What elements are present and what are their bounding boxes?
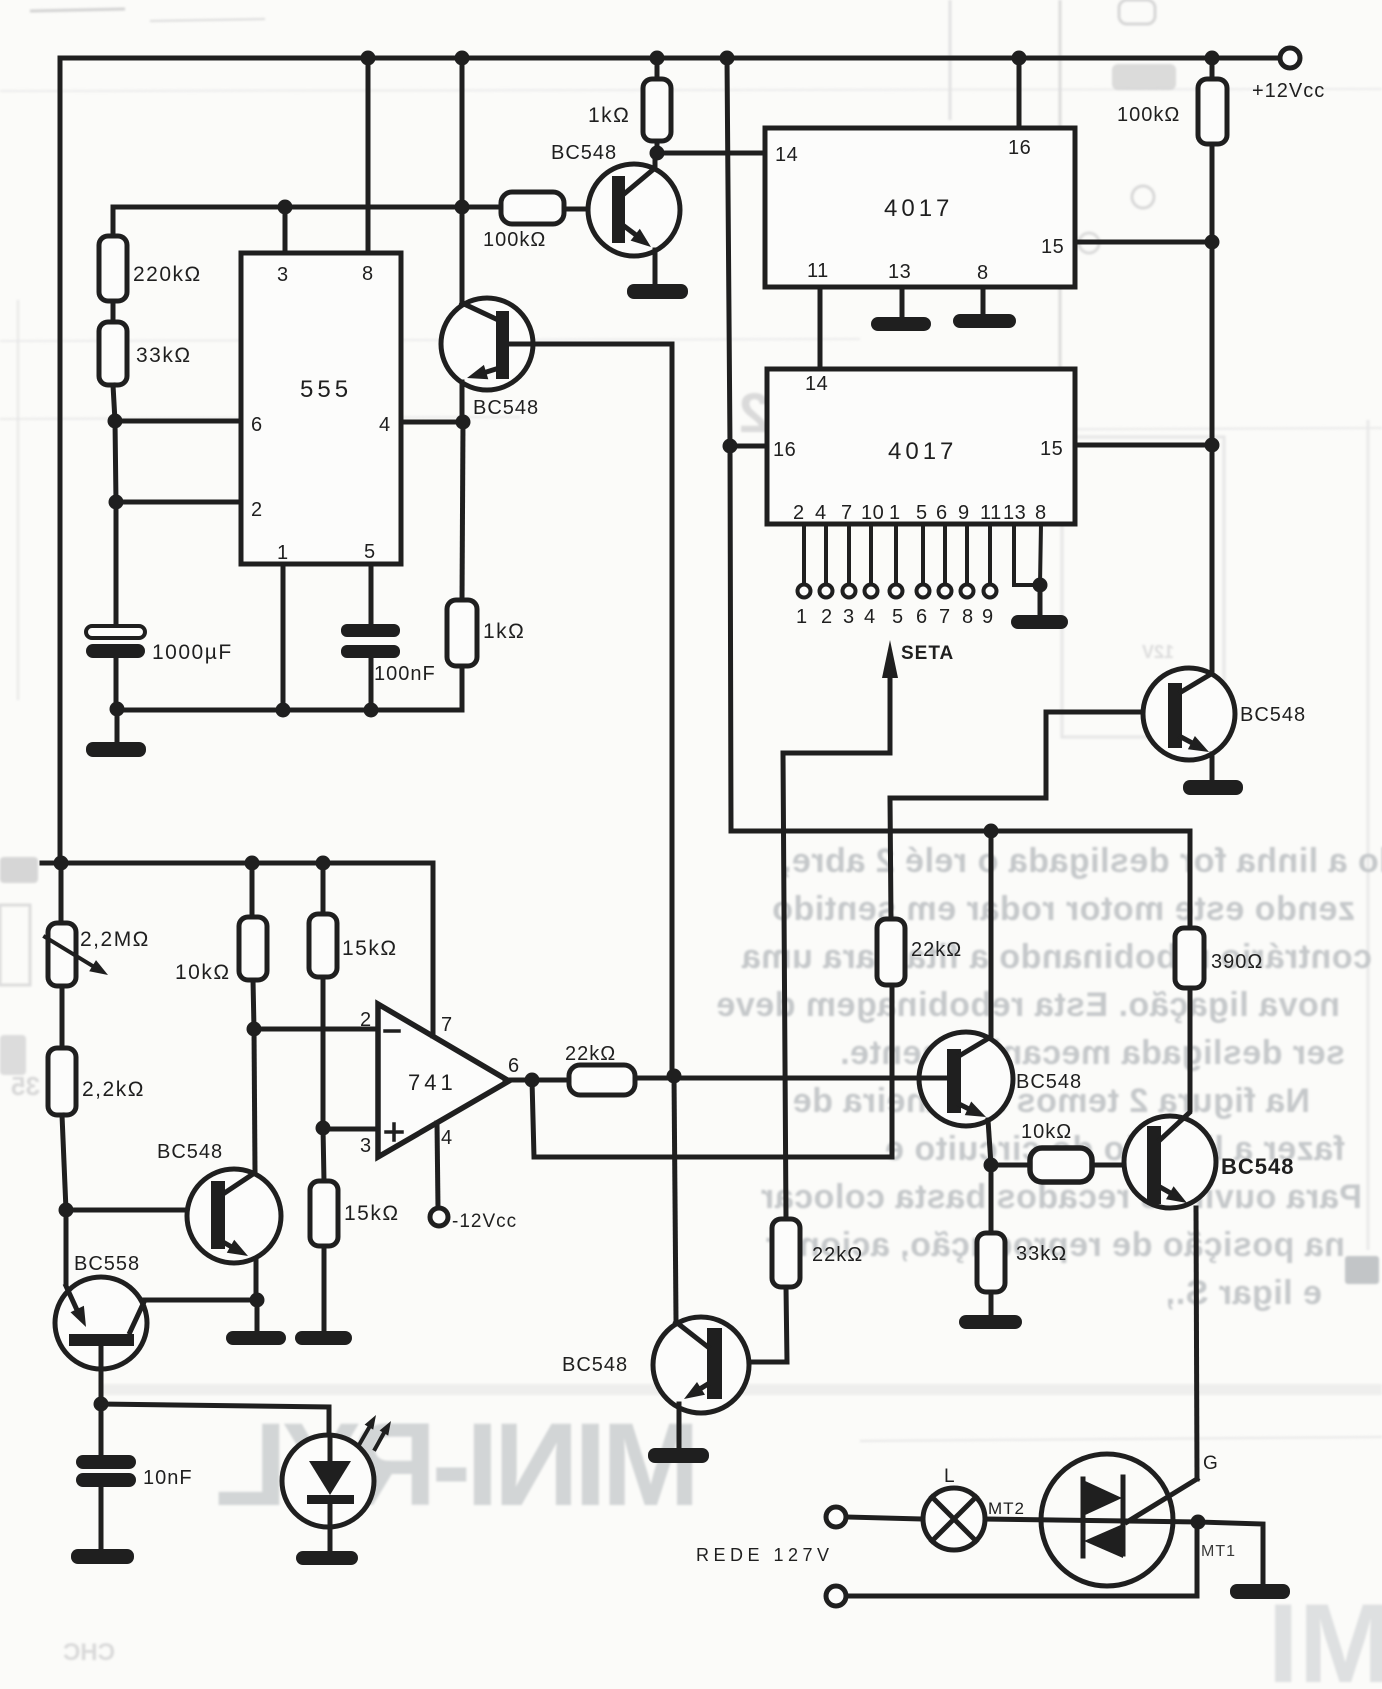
svg-text:+12Vcc: +12Vcc (1252, 80, 1325, 102)
svg-text:22kΩ: 22kΩ (812, 1244, 863, 1266)
wire pin3 node to R12 (323, 1128, 324, 1181)
svg-text:16: 16 (1008, 137, 1031, 159)
resistor R2 33k (99, 322, 127, 385)
svg-text:G: G (1203, 1453, 1219, 1474)
wire ground bus 555 (116, 708, 462, 713)
wire pin4 555 (401, 420, 463, 425)
svg-text:zendo este motor rodar em sent: zendo este motor rodar em sentido (772, 890, 1355, 928)
svg-text:9: 9 (982, 606, 994, 628)
wire node to ground G5 (1038, 585, 1043, 616)
svg-text:8: 8 (962, 606, 974, 628)
ground G2 (627, 284, 688, 299)
ground G4 (953, 314, 1016, 328)
svg-text:7: 7 (939, 606, 951, 628)
svg-text:13: 13 (1003, 502, 1026, 524)
node wire207 Q2 junction (455, 200, 470, 215)
svg-text:1: 1 (277, 542, 289, 564)
pin row labels U3 (793, 502, 1047, 524)
ground G3 (871, 317, 931, 331)
svg-text:5: 5 (364, 541, 376, 563)
svg-text:1: 1 (796, 606, 808, 628)
node mid column junction (667, 1069, 682, 1084)
triac TR1 (1041, 1454, 1173, 1586)
svg-text:6: 6 (251, 414, 263, 436)
node output junction (525, 1073, 540, 1088)
svg-text:7: 7 (841, 502, 853, 524)
capacitor C3 10nF (76, 1455, 136, 1469)
lamp L (923, 1466, 985, 1550)
wire R6 down right bus (1210, 144, 1215, 674)
node pin4 junction (456, 415, 471, 430)
svg-text:100kΩ: 100kΩ (483, 229, 546, 251)
node pin8-13 junction (1033, 578, 1048, 593)
resistor R12 15k (310, 1181, 338, 1246)
wire node to C3 (99, 1404, 104, 1455)
svg-text:1kΩ: 1kΩ (483, 620, 525, 643)
terminal -12Vcc (430, 1208, 448, 1226)
wire R2 to C1 column (113, 385, 116, 626)
svg-text:220kΩ: 220kΩ (133, 263, 202, 286)
svg-text:2: 2 (793, 502, 805, 524)
wire pin7 741 (431, 863, 436, 1036)
wire C2 to bottom (369, 658, 374, 710)
terminal mains upper (826, 1507, 846, 1527)
wire R5 to Q1 collector node (655, 141, 660, 153)
resistor R13 390 (1175, 928, 1204, 988)
ground G6 (295, 1331, 352, 1345)
wire 555 upper node horizontal (113, 207, 501, 236)
svg-text:MT1: MT1 (1201, 1543, 1236, 1560)
svg-text:CHC: CHC (63, 1639, 115, 1666)
wire pin1 555 (281, 564, 286, 710)
wire MT1 node down (1195, 1522, 1200, 1596)
svg-text:14: 14 (805, 373, 828, 395)
resistor R5 1k (643, 79, 671, 141)
wire SETA to R10 column (783, 753, 890, 1219)
resistor R6 100k (1198, 79, 1227, 144)
output terminals U3 (798, 585, 997, 598)
node pin1 bottom junction (276, 703, 291, 718)
wire lamp to MT1 node (985, 1519, 1198, 1522)
transistor Q6 BC548 (1124, 1113, 1294, 1479)
node top rail junction R5 1k (650, 51, 665, 66)
wire 741 output (505, 1078, 569, 1083)
svg-text:7: 7 (441, 1014, 453, 1036)
diode D1 LED (282, 1415, 391, 1552)
svg-text:2: 2 (360, 1009, 372, 1031)
wire pin4 741 (437, 1123, 438, 1208)
node pin6 junction (108, 414, 123, 429)
wire R1-R2 (111, 301, 116, 322)
transistor Q7 BC548 mirrored (562, 1076, 749, 1449)
svg-text:2,2MΩ: 2,2MΩ (80, 928, 150, 951)
svg-text:2,2kΩ: 2,2kΩ (82, 1078, 145, 1101)
wire pin2 555 (116, 500, 241, 505)
wire R3 to Q1 base (564, 207, 612, 212)
op-amp U3 4017 counter box (767, 369, 1075, 524)
wire pin6 555 (115, 419, 241, 424)
svg-text:BC548: BC548 (1221, 1154, 1294, 1179)
ground G9 (648, 1448, 709, 1463)
op-amp U1 555 timer box (241, 253, 401, 564)
node y863 left junction (54, 856, 69, 871)
wire mains lower (846, 1594, 1197, 1599)
svg-text:BC548: BC548 (473, 397, 539, 419)
wire C3 to ground (99, 1487, 104, 1550)
node MT1 junction (1191, 1515, 1206, 1530)
node C1 bottom junction (110, 702, 125, 717)
transistor Q8 BC558 (55, 1210, 257, 1404)
node y863 R11 junction (316, 856, 331, 871)
svg-text:6: 6 (916, 606, 928, 628)
ground G12 (296, 1551, 358, 1565)
resistor R16 10k (1030, 1148, 1092, 1182)
wire 4017-1 pin16 to rail (1017, 58, 1022, 128)
svg-text:BC558: BC558 (74, 1253, 140, 1275)
svg-text:10kΩ: 10kΩ (1021, 1121, 1072, 1143)
svg-text:4: 4 (864, 606, 876, 628)
capacitor C2 100nF (341, 624, 400, 637)
wire R9 to pin2 node (253, 980, 254, 1029)
svg-text:10nF: 10nF (143, 1467, 193, 1489)
wire Q5 emitter to R16 (991, 1163, 1030, 1168)
node C2 bottom junction (364, 703, 379, 718)
svg-text:555: 555 (300, 376, 352, 403)
wire +12V top rail (60, 56, 1280, 61)
wire pin2 741 (254, 1027, 377, 1032)
wire pin8 555 (366, 58, 371, 253)
node pin15-1 junction (1205, 235, 1220, 250)
resistor R14 22k (569, 1065, 635, 1095)
ground G10 (226, 1331, 286, 1345)
svg-text:1: 1 (889, 502, 901, 524)
wire Q8 base to LED (101, 1404, 329, 1438)
wire terminal to lamp (846, 1517, 924, 1519)
svg-text:33kΩ: 33kΩ (136, 344, 192, 367)
node y863 R9 junction (245, 856, 260, 871)
wire Q2 base to mid column (509, 344, 672, 1076)
svg-text:8: 8 (1035, 502, 1047, 524)
svg-text:14: 14 (775, 144, 798, 166)
arrow SETA (882, 640, 954, 753)
wire R15 to Q4 base (890, 712, 1168, 919)
wire rail to R5 (655, 58, 660, 79)
svg-text:8: 8 (977, 262, 989, 284)
wire node to R17 (989, 1165, 994, 1233)
node top rail junction Q2 collector (455, 51, 470, 66)
terminal mains lower (826, 1586, 846, 1606)
svg-text:15: 15 (1041, 236, 1064, 258)
svg-text:10: 10 (861, 502, 884, 524)
output pin lines U3 (804, 524, 990, 585)
svg-text:do a linha for desligada o rel: do a linha for desligada o relé 2 abre, (782, 842, 1382, 880)
svg-text:BC548: BC548 (1240, 704, 1306, 726)
svg-text:10kΩ: 10kΩ (175, 961, 231, 984)
svg-text:6: 6 (936, 502, 948, 524)
ground G1 (115, 709, 120, 744)
op-amp U2 4017 counter box (765, 128, 1075, 287)
svg-text:4: 4 (815, 502, 827, 524)
node pin2 junction (109, 495, 124, 510)
node top rail junction pin8 555 (361, 51, 376, 66)
wire C1 to bottom (114, 658, 119, 709)
wire pin13-2 reset (1014, 524, 1040, 585)
transistor Q4 BC548 (1143, 668, 1306, 781)
potentiometer P1 2.2M (45, 923, 150, 986)
wire left supply rail (58, 58, 63, 863)
svg-text:100kΩ: 100kΩ (1117, 104, 1180, 126)
node top rail junction 4017-1 pin16 (1012, 51, 1027, 66)
ground G7 (1183, 780, 1243, 795)
resistor R9 10k (239, 917, 267, 980)
svg-text:1kΩ: 1kΩ (588, 104, 630, 127)
transistor Q1 BC548 (551, 142, 680, 284)
resistor R15 22k feedback (877, 919, 905, 985)
resistor R8 2.2k (48, 1048, 76, 1115)
wire R10 to Q7 base (722, 1287, 787, 1362)
node pin2 741 junction (247, 1022, 262, 1037)
wire pin5 555 (369, 564, 374, 624)
wire pin3 741 (323, 1127, 377, 1132)
resistor R3 100k (501, 192, 564, 224)
transistor Q2 BC548 mirrored (441, 208, 539, 422)
wire MT1 to ground (1198, 1522, 1263, 1585)
node Q5 emitter junction (984, 1158, 999, 1173)
transistor Q5 BC548 (919, 831, 1082, 1165)
svg-text:22kΩ: 22kΩ (565, 1043, 616, 1065)
svg-text:e ligar S.,: e ligar S., (1165, 1274, 1322, 1312)
svg-text:SETA: SETA (901, 643, 954, 664)
svg-text:contrário rebobinando a fita p: contrário rebobinando a fita para uma (741, 938, 1372, 976)
node right bus pin15-2 junction (1205, 438, 1220, 453)
wire rail to Q2 collector node (460, 58, 465, 208)
wire 4017-1 pin15 (1075, 240, 1212, 245)
resistor R11 15k (309, 914, 337, 977)
wire +12V distribution y831 (731, 829, 1190, 834)
svg-text:3: 3 (277, 264, 289, 286)
node y831 Q5 collector junction (984, 824, 999, 839)
svg-text:4017: 4017 (884, 195, 953, 222)
wire 741 supply rail y863 (42, 861, 433, 866)
svg-text:12V: 12V (1142, 642, 1174, 662)
wire rail to R6 (1210, 58, 1215, 79)
svg-text:3: 3 (843, 606, 855, 628)
svg-text:4: 4 (441, 1127, 453, 1149)
svg-text:ser desligada mecanicamente.: ser desligada mecanicamente. (840, 1034, 1345, 1072)
svg-text:2: 2 (821, 606, 833, 628)
terminal +12Vcc (1280, 48, 1300, 68)
svg-text:5: 5 (916, 502, 928, 524)
wire R12 to ground (322, 1246, 327, 1332)
node top rail junction R6 100k (1205, 51, 1220, 66)
svg-text:11: 11 (980, 502, 1002, 524)
svg-text:35: 35 (11, 1071, 40, 1101)
wire pin8-2 to ground (1040, 524, 1041, 585)
svg-text:100nF: 100nF (374, 663, 436, 685)
ground G13 (1230, 1584, 1290, 1599)
wire 4017-2 pin15 (1075, 443, 1212, 448)
wire VDD drop from rail to y831 bus (727, 58, 731, 831)
svg-text:BC548: BC548 (157, 1141, 223, 1163)
wire pin11 to pin14 (818, 287, 823, 369)
resistor R1 220k (99, 236, 127, 301)
wire Q1 node to 4017-1 pin14 (657, 151, 765, 156)
wire pin8-1 to ground (981, 287, 986, 315)
node Q1 collector junction (650, 146, 665, 161)
svg-text:15kΩ: 15kΩ (344, 1202, 400, 1225)
svg-text:13: 13 (888, 261, 911, 283)
resistor R17 33k (977, 1233, 1005, 1292)
wire R4 to pin4 node (462, 422, 463, 600)
wire R17 to ground (989, 1292, 994, 1316)
svg-text:BC548: BC548 (551, 142, 617, 164)
wire 4017-2 pin16 (730, 444, 767, 449)
svg-text:-12Vcc: -12Vcc (452, 1211, 517, 1232)
svg-text:11: 11 (807, 260, 829, 282)
op-amp U4 741 (360, 1004, 520, 1157)
wire gate diagonal (1127, 1479, 1197, 1522)
wire R16 to Q6 base (1092, 1163, 1147, 1168)
transistor Q3 BC548 (66, 1029, 281, 1300)
wire R14 to Q5 base (635, 1076, 922, 1081)
svg-text:MT2: MT2 (988, 1499, 1025, 1518)
node Q8 base junction (94, 1397, 109, 1412)
ground G11 (71, 1549, 134, 1564)
wire node to ground G10 (255, 1300, 260, 1332)
svg-text:REDE 127V: REDE 127V (696, 1545, 834, 1565)
svg-text:15: 15 (1040, 438, 1063, 460)
svg-text:2: 2 (251, 499, 263, 521)
svg-text:4017: 4017 (888, 438, 957, 465)
svg-text:15kΩ: 15kΩ (342, 937, 398, 960)
svg-text:741: 741 (408, 1070, 457, 1095)
svg-text:BC548: BC548 (1016, 1071, 1082, 1093)
wire P1 to R8 (60, 986, 65, 1048)
svg-text:nova ligação. Esta rebobinagem: nova ligação. Esta rebobinagem deve (716, 986, 1340, 1024)
resistor R4 1k (447, 600, 477, 666)
wire rail to P1 (59, 863, 64, 923)
node pin3 741 junction (316, 1121, 331, 1136)
svg-text:390Ω: 390Ω (1211, 951, 1263, 973)
svg-text:9: 9 (958, 502, 970, 524)
svg-text:3: 3 (360, 1135, 372, 1157)
wire pin3 555 (283, 207, 288, 253)
wire R11 to pin3 node (321, 977, 326, 1128)
wire rail to R9 (250, 863, 255, 917)
wire rail to R11 (321, 863, 326, 914)
resistor R10 22k (772, 1219, 800, 1287)
svg-text:16: 16 (773, 439, 796, 461)
wire y831 to R13 (1188, 831, 1193, 928)
ground G8 (959, 1315, 1022, 1329)
wire R13 to Q6 collector (1188, 988, 1193, 1110)
wire R8 to Q3 base node (62, 1115, 66, 1210)
node top rail junction 4017-2 VDD line (720, 51, 735, 66)
svg-text:BC548: BC548 (562, 1354, 628, 1376)
wire pin13-1 to ground (900, 287, 905, 318)
svg-text:6: 6 (508, 1055, 520, 1077)
node pin16-2 junction (723, 439, 738, 454)
ground G5 (1011, 615, 1068, 629)
svg-text:22kΩ: 22kΩ (911, 939, 962, 961)
svg-text:L: L (944, 1466, 956, 1487)
capacitor C1 1000uF (86, 626, 145, 638)
wire feedback drop (532, 985, 892, 1157)
node Q8 collector junction (250, 1293, 265, 1308)
svg-text:5: 5 (892, 606, 904, 628)
svg-text:33kΩ: 33kΩ (1016, 1243, 1067, 1265)
node Q3 base junction (59, 1203, 74, 1218)
node wire207 pin3 junction (278, 200, 293, 215)
svg-text:8: 8 (362, 263, 374, 285)
svg-text:4: 4 (379, 414, 391, 436)
svg-text:1000µF: 1000µF (152, 641, 233, 664)
wire bottom corner to R4 (460, 666, 465, 710)
output number labels U3 (796, 606, 994, 628)
